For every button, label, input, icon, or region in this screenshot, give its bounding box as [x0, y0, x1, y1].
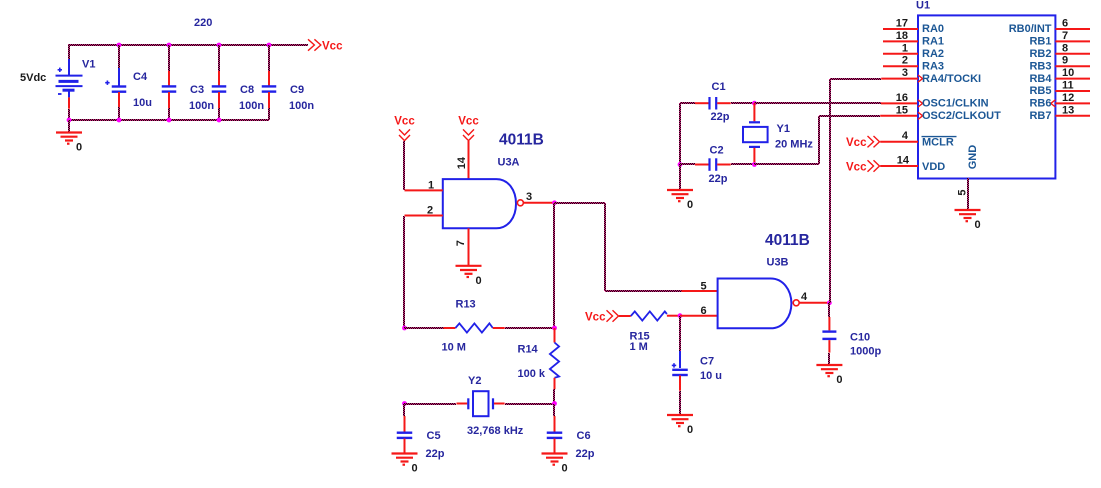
- svg-text:RB1: RB1: [1029, 36, 1051, 48]
- node C8 bottom junction: [217, 118, 222, 123]
- wire C4 bottom: [118, 107, 120, 120]
- ground 0 under C6: [542, 454, 568, 475]
- svg-text:22p: 22p: [426, 448, 445, 460]
- svg-text:5: 5: [957, 189, 969, 195]
- wire RA4 horizontal: [830, 78, 881, 80]
- svg-text:C9: C9: [290, 84, 304, 96]
- pin 10 of U1 (RB4): [1055, 67, 1090, 79]
- svg-text:6: 6: [1062, 18, 1068, 30]
- svg-text:12: 12: [1062, 92, 1074, 104]
- power Vcc at VDD: [846, 160, 880, 173]
- wire OSC2 route: [754, 116, 880, 164]
- svg-text:14: 14: [897, 155, 910, 167]
- svg-text:11: 11: [1062, 80, 1074, 92]
- svg-text:9: 9: [1062, 55, 1068, 67]
- svg-text:C3: C3: [190, 84, 204, 96]
- svg-text:0: 0: [476, 275, 482, 287]
- pin name MCLR with overline: [922, 137, 957, 149]
- node Y1 bottom junction: [752, 162, 757, 167]
- capacitor C10 1000p: [822, 317, 836, 353]
- ground 0 under U3A pin 7: [456, 266, 482, 287]
- svg-text:100n: 100n: [289, 100, 314, 112]
- svg-text:10: 10: [1062, 67, 1074, 79]
- svg-text:R14: R14: [518, 344, 539, 356]
- crystal Y1 20MHz: [743, 103, 768, 164]
- wire C3 bottom: [168, 108, 170, 120]
- svg-text:V1: V1: [82, 59, 95, 71]
- output bubble of U3A: [517, 200, 523, 206]
- power Vcc at MCLR: [846, 136, 880, 149]
- nand gate U3A: [443, 179, 516, 228]
- svg-text:Y2: Y2: [468, 375, 481, 387]
- svg-text:220: 220: [194, 17, 212, 29]
- wire ground stub V1: [68, 120, 70, 132]
- svg-text:0: 0: [975, 219, 981, 231]
- svg-text:0: 0: [76, 142, 82, 154]
- svg-text:0: 0: [412, 463, 418, 475]
- svg-text:1000p: 1000p: [850, 346, 881, 358]
- pin 3 of U1 (RA4/TOCKI): [881, 67, 922, 82]
- pin 13 of U1 (RB7): [1055, 104, 1090, 116]
- pin 2 of U1 (RA3): [883, 55, 918, 67]
- svg-text:2: 2: [427, 205, 433, 217]
- node R15/C7/pin6 junction: [678, 313, 683, 318]
- svg-text:VDD: VDD: [922, 161, 945, 173]
- wire C10 top: [828, 303, 830, 317]
- wire U3A output down to R13/R14: [553, 203, 555, 328]
- node R13/R14 junction: [552, 326, 557, 331]
- svg-text:4011B: 4011B: [499, 132, 544, 149]
- node V1 bottom junction: [67, 118, 72, 123]
- node C9 top junction: [267, 43, 272, 48]
- svg-text:C2: C2: [710, 145, 724, 157]
- pin 11 of U1 (RB5): [1055, 80, 1090, 92]
- pin 7 of U3A: [468, 228, 470, 265]
- pin 6 of U1 (RB0/INT): [1055, 18, 1090, 30]
- svg-text:Y1: Y1: [777, 123, 790, 135]
- wire C5 top: [403, 404, 405, 416]
- svg-text:14: 14: [456, 156, 468, 169]
- svg-text:RA1: RA1: [922, 36, 944, 48]
- svg-text:100n: 100n: [189, 100, 214, 112]
- svg-text:MCLR: MCLR: [922, 137, 954, 149]
- wire C9 top: [268, 45, 270, 71]
- svg-text:4011B: 4011B: [765, 232, 810, 249]
- svg-text:100 k: 100 k: [518, 368, 546, 380]
- pin 14 of U1 (VDD): [880, 155, 918, 167]
- svg-text:6: 6: [701, 305, 707, 317]
- svg-text:U1: U1: [916, 0, 930, 12]
- node C3 top junction: [167, 43, 172, 48]
- wire ground stub C1/C2: [679, 164, 681, 190]
- svg-text:32,768 kHz: 32,768 kHz: [467, 425, 524, 437]
- pin name OSC2/CLKOUT: [896, 104, 1001, 122]
- svg-text:16: 16: [896, 92, 908, 104]
- ground 0 under C10: [816, 365, 842, 386]
- pin 16 of U1: [881, 102, 918, 104]
- svg-text:0: 0: [836, 374, 842, 386]
- svg-text:22p: 22p: [709, 173, 728, 185]
- capacitor C7 10u: [672, 351, 688, 391]
- node C8 top junction: [217, 43, 222, 48]
- wire bottom rail: [69, 119, 269, 121]
- svg-text:0: 0: [562, 463, 568, 475]
- ground 0 under V1: [56, 133, 82, 154]
- wire C8 bottom: [218, 108, 220, 120]
- node U3A output junction: [552, 200, 557, 205]
- wire U3A output to U3B pin 5: [554, 203, 682, 291]
- svg-text:RA4/TOCKI: RA4/TOCKI: [922, 73, 981, 85]
- pin 9 of U1 (RB3): [1055, 55, 1090, 67]
- capacitor C3 100n: [162, 71, 177, 108]
- wire C7 top: [679, 316, 681, 351]
- pin name OSC1/CLKIN: [896, 92, 989, 110]
- svg-text:17: 17: [896, 18, 908, 30]
- pin 1 of U1 (RA2): [883, 42, 918, 54]
- wire OSC1 to chip: [754, 102, 881, 104]
- wire C8 top: [218, 45, 220, 71]
- svg-text:RB2: RB2: [1029, 48, 1051, 60]
- pin 6 of U3B: [680, 315, 718, 317]
- pin 8 of U1 (RB2): [1055, 42, 1090, 54]
- crystal Y2 32768 Hz: [457, 391, 505, 416]
- pin 14 of U3A: [468, 141, 470, 179]
- svg-text:C10: C10: [850, 332, 870, 344]
- node U3B output junction: [827, 300, 832, 305]
- node Y2 left junction: [402, 401, 407, 406]
- pin 2 of U3A: [405, 215, 443, 217]
- svg-text:Vcc: Vcc: [585, 312, 606, 324]
- svg-text:RA0: RA0: [922, 23, 944, 35]
- wire C2 left stub: [680, 163, 695, 165]
- pin 4 of U3B: [799, 302, 829, 304]
- ground 0 under C1/C2: [667, 190, 693, 211]
- wire C6 top: [553, 404, 555, 416]
- svg-text:RB5: RB5: [1029, 85, 1051, 97]
- svg-text:U3A: U3A: [498, 157, 520, 169]
- svg-text:C6: C6: [577, 430, 591, 442]
- pin 7 of U1 (RB1): [1055, 30, 1090, 42]
- node Y1 top junction: [752, 101, 757, 106]
- wire Y2 left: [404, 403, 456, 405]
- node C3 bottom junction: [167, 118, 172, 123]
- pin 12 of U1 (RB6): [1051, 92, 1090, 107]
- svg-text:20 MHz: 20 MHz: [775, 139, 813, 151]
- pin 3 of U3A: [523, 202, 554, 204]
- power flag >>Vcc: [308, 39, 343, 52]
- svg-text:Vcc: Vcc: [394, 116, 415, 128]
- wire Vcc top rail: [69, 44, 308, 46]
- ground 0 under C5: [392, 454, 418, 475]
- svg-text:Vcc: Vcc: [846, 137, 867, 149]
- capacitor C1 22p: [695, 97, 731, 110]
- pin 17 of U1 (RA0): [883, 18, 918, 30]
- svg-text:RB3: RB3: [1029, 60, 1051, 72]
- svg-text:10 M: 10 M: [442, 342, 466, 354]
- svg-text:7: 7: [1062, 30, 1068, 42]
- wire Y2 right: [505, 403, 554, 405]
- node R13 left junction: [402, 326, 407, 331]
- wire V1 top lead: [68, 44, 70, 59]
- output bubble of U3B: [793, 300, 799, 306]
- svg-text:RB4: RB4: [1029, 73, 1052, 85]
- wire RA4 to U3B output: [829, 79, 831, 303]
- power Vcc at R15: [585, 310, 619, 323]
- resistor R13 10M: [444, 323, 505, 332]
- svg-text:U3B: U3B: [767, 257, 789, 269]
- ic U1 PIC body: [918, 15, 1055, 178]
- capacitor C8 100n: [212, 71, 227, 108]
- svg-text:22p: 22p: [711, 111, 730, 123]
- wire R14 bottom: [553, 389, 555, 404]
- pin 18 of U1 (RA1): [883, 30, 918, 42]
- capacitor C6 22p: [547, 416, 563, 454]
- svg-text:10u: 10u: [133, 97, 152, 109]
- ground 0 under C7: [667, 415, 693, 436]
- resistor R15 1M: [619, 311, 680, 320]
- wire C10 bottom: [828, 353, 830, 365]
- svg-text:2: 2: [902, 55, 908, 67]
- capacitor C9 100n: [262, 71, 277, 108]
- wire Vcc to pin 1: [403, 141, 405, 190]
- wire pin 2 down to R13: [403, 216, 405, 328]
- svg-text:C1: C1: [712, 81, 726, 93]
- svg-text:5Vdc: 5Vdc: [20, 72, 46, 84]
- svg-text:RB6: RB6: [1029, 98, 1051, 110]
- svg-text:18: 18: [896, 30, 908, 42]
- svg-text:4: 4: [801, 291, 808, 303]
- node Y2 right junction: [552, 401, 557, 406]
- ground 0 under U1: [955, 210, 981, 231]
- svg-text:4: 4: [902, 130, 909, 142]
- wire C1 to Y1 junction: [731, 102, 754, 104]
- svg-text:OSC2/CLKOUT: OSC2/CLKOUT: [922, 110, 1001, 122]
- svg-text:RB0/INT: RB0/INT: [1009, 23, 1052, 35]
- wire C3 top: [168, 45, 170, 71]
- svg-text:1: 1: [428, 180, 434, 192]
- node C4 top junction: [117, 43, 122, 48]
- svg-text:7: 7: [455, 240, 467, 246]
- pin 1 of U3A: [405, 189, 443, 191]
- nand gate U3B: [718, 279, 792, 329]
- svg-text:Vcc: Vcc: [458, 116, 479, 128]
- svg-text:RB7: RB7: [1029, 110, 1051, 122]
- wire C2 to Y1 junction: [731, 163, 754, 165]
- svg-text:Vcc: Vcc: [846, 162, 867, 174]
- wire OSC1 left corner: [680, 103, 695, 164]
- svg-text:C7: C7: [700, 356, 714, 368]
- pin 5 of U3B: [682, 290, 718, 292]
- svg-text:13: 13: [1062, 104, 1074, 116]
- svg-text:100n: 100n: [239, 100, 264, 112]
- wire GND stub of U1: [967, 178, 969, 210]
- svg-text:C8: C8: [240, 84, 254, 96]
- node C4 bottom junction: [117, 118, 122, 123]
- wire R13 left: [404, 327, 444, 329]
- svg-text:1: 1: [902, 42, 908, 54]
- capacitor C2 22p: [695, 158, 731, 171]
- wire V1 bottom lead: [68, 109, 70, 120]
- battery V1 5Vdc: [56, 59, 83, 109]
- capacitor C5 22p: [397, 416, 413, 454]
- svg-text:OSC1/CLKIN: OSC1/CLKIN: [922, 98, 989, 110]
- svg-text:0: 0: [687, 199, 693, 211]
- svg-text:5: 5: [701, 281, 707, 293]
- svg-text:RA2: RA2: [922, 48, 944, 60]
- pin 15 of U1: [880, 115, 918, 117]
- power Vcc above pin 1: [394, 116, 415, 141]
- svg-text:3: 3: [526, 191, 532, 203]
- svg-text:15: 15: [896, 104, 908, 116]
- svg-text:1 M: 1 M: [630, 341, 648, 353]
- svg-text:Vcc: Vcc: [322, 41, 343, 53]
- svg-text:3: 3: [902, 67, 908, 79]
- node C2 left junction: [678, 162, 683, 167]
- capacitor C4 10u: [105, 68, 126, 107]
- svg-text:C5: C5: [427, 430, 441, 442]
- svg-text:R13: R13: [456, 299, 476, 311]
- wire C7 bottom: [679, 391, 681, 415]
- power Vcc above pin 14: [458, 116, 479, 141]
- svg-text:0: 0: [687, 424, 693, 436]
- svg-text:22p: 22p: [576, 448, 595, 460]
- wire C4 top: [118, 45, 120, 68]
- wire R13 right: [505, 327, 554, 329]
- wire C9 bottom: [268, 108, 270, 120]
- svg-text:GND: GND: [967, 145, 979, 170]
- svg-text:8: 8: [1062, 42, 1068, 54]
- pin 4 of U1 (MCLR): [880, 130, 918, 142]
- svg-text:RA3: RA3: [922, 60, 944, 72]
- resistor R14 100k: [550, 328, 559, 389]
- svg-text:10 u: 10 u: [700, 370, 722, 382]
- svg-text:C4: C4: [133, 71, 148, 83]
